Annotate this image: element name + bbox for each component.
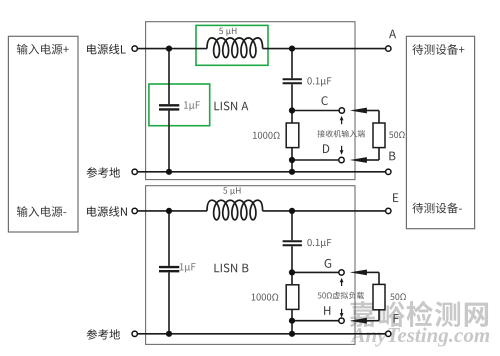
terminal L bbox=[132, 46, 137, 51]
node G bbox=[325, 259, 332, 268]
small down arrow above D bbox=[341, 146, 343, 151]
label 1uF (LISN A) bbox=[184, 101, 200, 110]
wire 1uF branch lower (LISN B) bbox=[168, 272, 170, 333]
svg-text:AnyTesting.com: AnyTesting.com bbox=[350, 323, 491, 347]
capacitor C3 1uF (LISN B) bbox=[159, 266, 179, 268]
terminal D bbox=[339, 157, 344, 162]
label 0.1uF (LISN A) bbox=[307, 77, 331, 86]
wire R2 to corner D bbox=[378, 148, 380, 160]
wire line L right segment to A bbox=[263, 48, 386, 50]
resistor R4 50ohm external (LISN B) bbox=[373, 284, 385, 309]
label 参考地 bottom bbox=[87, 329, 120, 340]
wire corner down to R4 bbox=[378, 272, 380, 284]
wire corner to arrow D bbox=[365, 159, 379, 161]
wire 1uF branch upper (LISN B) bbox=[168, 211, 170, 266]
arrowhead into terminal H bbox=[350, 318, 367, 324]
inductor L1 5uH (LISN A) bbox=[207, 38, 263, 58]
resistor R2 50ohm external (LISN A) bbox=[373, 123, 385, 148]
small down arrow above H bbox=[341, 309, 343, 314]
wire line N left segment bbox=[137, 210, 207, 212]
node B bbox=[389, 152, 395, 161]
wire 0.1uF branch upper (LISN A) bbox=[291, 49, 293, 79]
capacitor C2 0.1uF (LISN A) bbox=[283, 78, 302, 80]
wire reference ground top bbox=[137, 171, 385, 173]
small up arrow below G bbox=[341, 281, 343, 286]
wire corner to arrow H bbox=[365, 320, 379, 322]
wire node C to terminal C bbox=[292, 110, 339, 112]
terminal H bbox=[339, 318, 344, 323]
arrowhead into terminal D bbox=[350, 157, 367, 163]
node H bbox=[324, 306, 330, 315]
node F bbox=[394, 314, 399, 323]
node D bbox=[323, 144, 329, 153]
terminal B bbox=[386, 169, 391, 174]
label 50ohm (LISN B) bbox=[390, 293, 406, 300]
capacitor C4 0.1uF (LISN B) bbox=[283, 240, 302, 242]
small up arrow below C bbox=[341, 119, 343, 124]
wire node G to terminal G bbox=[292, 271, 339, 273]
wire arrow G to corner bbox=[365, 271, 379, 273]
label 50ohm虚拟负载 bbox=[318, 292, 364, 299]
LISN A enclosure box bbox=[146, 22, 355, 180]
capacitor C1 1uF (LISN A) bbox=[159, 104, 179, 106]
label 1uF (LISN B) bbox=[180, 263, 196, 272]
wire R4 to corner H bbox=[378, 310, 380, 321]
terminal A bbox=[386, 46, 391, 51]
wire 0.1uF to node C (LISN A) bbox=[291, 84, 293, 123]
label LISN A bbox=[214, 102, 248, 111]
arrowhead into terminal C bbox=[350, 108, 367, 114]
terminal F bbox=[386, 331, 391, 336]
wire line L left segment bbox=[137, 48, 207, 50]
wire reference ground bottom bbox=[137, 333, 385, 335]
wire 1uF branch upper (LISN A) bbox=[168, 49, 170, 105]
wire 1uF branch lower (LISN A) bbox=[168, 111, 170, 172]
wire line N right segment to E bbox=[263, 210, 386, 212]
watermark text 嘉峪检测网 bbox=[350, 301, 488, 327]
wire 0.1uF branch upper (LISN B) bbox=[291, 211, 293, 240]
label LISN B bbox=[214, 264, 248, 273]
terminal N bbox=[132, 208, 137, 213]
label 参考地 top bbox=[87, 167, 120, 178]
label 1000ohm (LISN A) bbox=[253, 132, 280, 139]
wire node H to ground (LISN B) bbox=[291, 321, 293, 334]
label 1000ohm (LISN B) bbox=[252, 293, 279, 300]
wire arrow C to corner bbox=[365, 110, 379, 112]
terminal E bbox=[386, 208, 391, 213]
wire node D to terminal D bbox=[292, 159, 339, 161]
terminal C bbox=[339, 108, 344, 113]
junction node dots bbox=[166, 46, 172, 52]
terminal ref-ground top bbox=[132, 169, 137, 174]
node C bbox=[321, 96, 327, 105]
label 50ohm (LISN A) bbox=[389, 131, 405, 138]
inductor L2 5uH (LISN B) bbox=[207, 200, 263, 220]
arrowhead into terminal G bbox=[350, 270, 367, 276]
resistor R3 1000ohm (LISN B) bbox=[286, 285, 299, 310]
label 输入电源- bbox=[17, 206, 66, 217]
terminal G bbox=[339, 270, 344, 275]
resistor R1 1000ohm (LISN A) bbox=[286, 123, 299, 148]
label 待测设备+ bbox=[412, 44, 464, 55]
wire R1 to node D (LISN A) bbox=[291, 148, 293, 160]
green highlight box around inductor L1 bbox=[196, 25, 268, 65]
label 电源线L bbox=[87, 44, 126, 55]
LISN B enclosure box bbox=[146, 186, 355, 345]
label 接收机输入端 bbox=[317, 130, 364, 137]
label 待测设备- bbox=[412, 203, 462, 214]
wire corner down to R2 bbox=[378, 111, 380, 124]
wire node H to terminal H bbox=[292, 320, 339, 322]
terminal ref-ground bottom bbox=[132, 331, 137, 336]
label 5uH (LISN B) bbox=[223, 187, 240, 195]
wire R3 to node H (LISN B) bbox=[291, 309, 293, 320]
green highlight box around capacitor 1uF bbox=[149, 84, 210, 126]
label 0.1uF (LISN B) bbox=[307, 239, 331, 248]
node A bbox=[389, 30, 396, 39]
label 5uH (LISN A) bbox=[219, 28, 236, 36]
label 输入电源+ bbox=[17, 44, 69, 55]
label 电源线N bbox=[87, 206, 127, 217]
wire node D to ground (LISN A) bbox=[291, 160, 293, 172]
input power box (left) bbox=[8, 36, 78, 232]
EUT box (right) bbox=[406, 36, 474, 228]
node E bbox=[393, 193, 398, 202]
wire 0.1uF to node G (LISN B) bbox=[291, 246, 293, 284]
